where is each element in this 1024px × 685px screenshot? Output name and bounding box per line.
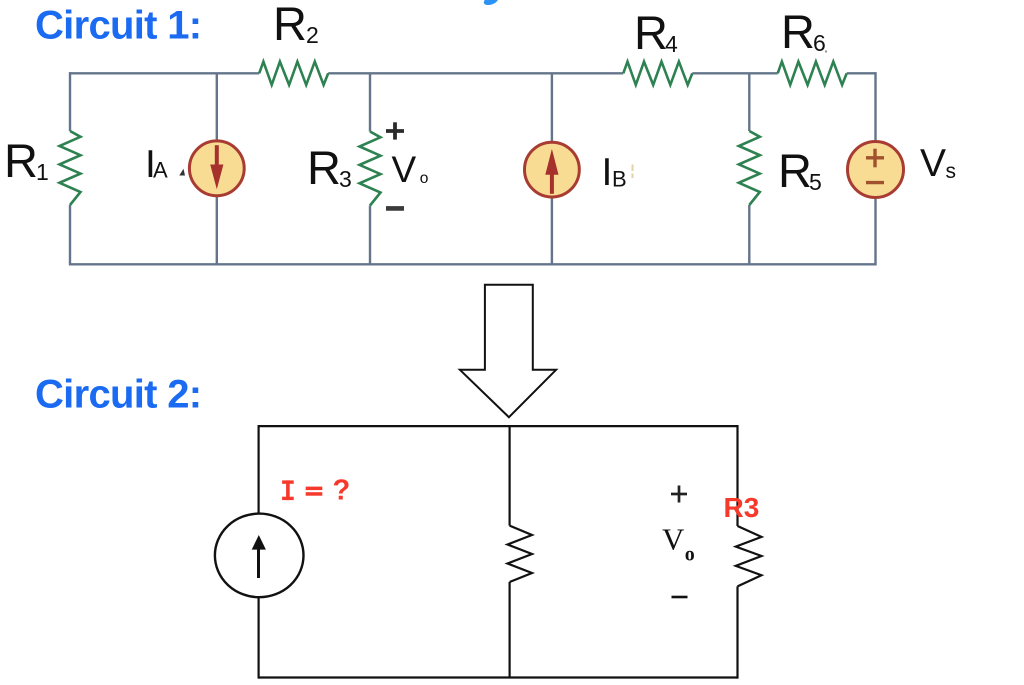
wire circuit 2 middle branch xyxy=(509,426,511,677)
current source IA xyxy=(189,141,244,196)
resistor R3 (circuit 2) xyxy=(736,526,762,586)
wire top-right segment xyxy=(847,72,876,74)
wire top-left segment xyxy=(70,72,259,74)
wire right branch (Vs) xyxy=(874,72,876,265)
svg-text:?: ? xyxy=(333,475,351,507)
resistor R4 xyxy=(623,62,692,85)
plus sign of Vo xyxy=(386,122,404,139)
wire IB branch xyxy=(551,73,553,264)
wire circuit 2 right branch xyxy=(736,425,738,679)
wire IA branch xyxy=(216,73,218,264)
node: circuit 1 top rail xyxy=(70,72,876,74)
svg-text:R: R xyxy=(778,144,812,197)
svg-text:R: R xyxy=(634,6,668,59)
svg-text:V: V xyxy=(392,149,417,190)
svg-text:5: 5 xyxy=(809,169,822,195)
svg-text:o: o xyxy=(685,543,695,565)
node: circuit 2 top rail xyxy=(259,425,738,427)
minus sign of Vo (circuit 2) xyxy=(672,596,688,599)
svg-text:V: V xyxy=(920,142,946,185)
svg-text:2: 2 xyxy=(306,22,319,48)
resistor middle (circuit 2) xyxy=(508,526,533,582)
artifact mark near IA xyxy=(179,169,185,176)
resistor R2 xyxy=(259,62,328,85)
resistor R5 xyxy=(739,131,760,205)
block arrow down xyxy=(460,285,556,418)
minus sign of Vo xyxy=(386,206,404,211)
resistor R1 xyxy=(60,131,81,205)
node: circuit 2 bottom rail xyxy=(259,676,738,678)
svg-text:6: 6 xyxy=(813,30,826,56)
svg-text:V: V xyxy=(662,522,685,557)
cropped blue title remnant xyxy=(483,0,500,7)
wire R3 branch xyxy=(369,73,371,264)
artifact dot below R6 xyxy=(825,50,827,52)
svg-text:R: R xyxy=(273,0,307,50)
current source IB xyxy=(525,142,580,197)
svg-text:R: R xyxy=(781,5,815,58)
voltage source Vs xyxy=(848,142,904,198)
artifact pale dashes right of IB xyxy=(632,165,634,172)
svg-text:R: R xyxy=(307,141,341,194)
svg-text:A: A xyxy=(153,157,168,182)
svg-text:Circuit 1:: Circuit 1: xyxy=(35,4,201,48)
svg-text:R: R xyxy=(4,134,38,187)
svg-text:4: 4 xyxy=(665,31,678,57)
plus sign of Vo (circuit 2) xyxy=(671,486,687,503)
wire top segment (R4 to R6) xyxy=(692,72,777,74)
resistor R3 xyxy=(360,132,381,206)
current source I xyxy=(215,514,304,598)
svg-text:3: 3 xyxy=(339,166,352,192)
svg-text:I: I xyxy=(602,151,613,194)
wire R5 branch xyxy=(748,73,750,264)
svg-text:o: o xyxy=(420,170,429,187)
svg-text:1: 1 xyxy=(36,159,49,185)
svg-text:B: B xyxy=(612,166,627,191)
resistor R6 xyxy=(778,62,847,85)
wire top middle segment (R2 to R4) xyxy=(328,72,623,74)
svg-text:Circuit 2:: Circuit 2: xyxy=(35,372,201,416)
svg-text:R3: R3 xyxy=(724,492,760,523)
wire circuit 2 left branch xyxy=(258,425,260,679)
svg-text:s: s xyxy=(946,160,957,183)
node: circuit 1 bottom rail xyxy=(70,263,876,265)
label I = ? xyxy=(282,480,322,500)
wire left branch (R1) xyxy=(69,72,71,265)
